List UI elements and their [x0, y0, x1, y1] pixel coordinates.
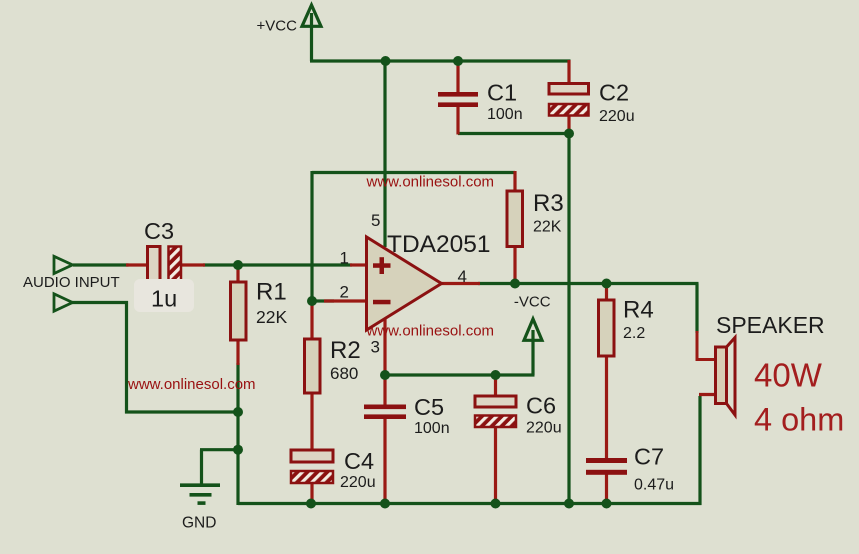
wire pin2 stub — [324, 299, 366, 302]
capacitor C2 bottom element — [549, 104, 589, 116]
power flag +VCC — [302, 5, 321, 61]
junction node A input — [233, 260, 243, 270]
wire R3 top pin — [513, 171, 516, 192]
wire bottom ground rail — [238, 502, 702, 505]
wire C6 top pin — [494, 374, 497, 397]
svg-text:22K: 22K — [533, 218, 562, 235]
svg-text:2.2: 2.2 — [623, 325, 645, 342]
svg-text:22K: 22K — [256, 307, 287, 327]
wire -VCC flag drop — [531, 330, 534, 375]
junction rail C4 — [306, 499, 316, 509]
wire R1 leg down — [236, 363, 239, 505]
wire C6 bottom pin — [494, 426, 497, 503]
capacitor C7 bottom plate — [586, 470, 627, 475]
svg-text:5: 5 — [371, 211, 380, 230]
wire R4 top pin — [605, 282, 608, 301]
resistor R4 — [599, 300, 615, 356]
wire speaker bottom pin — [699, 393, 717, 396]
op-amp U1 minus input marker — [373, 300, 391, 305]
svg-text:AUDIO INPUT: AUDIO INPUT — [23, 274, 120, 291]
capacitor C1 bottom plate — [438, 102, 478, 107]
svg-text:C3: C3 — [144, 218, 174, 244]
junction pin2 feedback — [307, 296, 317, 306]
svg-text:TDA2051: TDA2051 — [387, 231, 491, 258]
junction C2 bottom — [564, 129, 574, 139]
wire R1 bottom pin — [236, 339, 239, 365]
svg-text:C4: C4 — [344, 448, 374, 474]
wire pin3 stub — [383, 317, 386, 376]
capacitor C3 value 1u — [134, 279, 194, 312]
wire C3 left pin — [126, 263, 149, 266]
wire top +VCC rail — [310, 59, 571, 62]
svg-text:R3: R3 — [533, 190, 564, 217]
capacitor C5 top plate — [364, 405, 406, 410]
speaker LS1 driver — [716, 347, 727, 404]
wire R4 to C7 — [605, 355, 608, 459]
resistor R2 — [305, 339, 321, 393]
svg-text:3: 3 — [371, 337, 380, 356]
wire speaker bottom return — [698, 396, 701, 505]
wire pin3 to -VCC flag — [385, 373, 535, 376]
junction gnd branch — [233, 445, 243, 455]
svg-text:4 ohm: 4 ohm — [754, 402, 844, 438]
capacitor C4 top element — [291, 450, 333, 462]
wire speaker top pin — [697, 331, 717, 360]
svg-text:C2: C2 — [599, 79, 629, 105]
junction rail C7 — [602, 499, 612, 509]
junction output R4 — [602, 279, 612, 289]
wire R2 to C4 — [310, 392, 313, 451]
svg-text:www.onlinesol.com: www.onlinesol.com — [366, 174, 495, 191]
svg-text:220u: 220u — [340, 474, 376, 491]
svg-text:1: 1 — [340, 248, 349, 267]
svg-text:2: 2 — [340, 283, 349, 302]
svg-text:R1: R1 — [256, 279, 287, 306]
junction R1 leg input2 — [233, 407, 243, 417]
svg-text:GND: GND — [182, 514, 216, 531]
resistor R1 — [231, 282, 247, 340]
svg-text:40W: 40W — [754, 357, 823, 394]
power flag -VCC — [524, 319, 542, 340]
svg-text:SPEAKER: SPEAKER — [716, 312, 825, 338]
wire C3 right pin — [180, 263, 205, 266]
wire input2 horizontal — [72, 301, 128, 304]
wire input2 to R1 leg — [125, 410, 240, 413]
junction rail x569 — [564, 499, 574, 509]
junction top rail pin5 — [381, 56, 391, 66]
wire C5 top pin — [383, 374, 386, 405]
svg-text:R2: R2 — [330, 337, 361, 364]
wire output to speaker drop — [695, 284, 698, 334]
wire C1-C2 bottom link — [458, 132, 571, 135]
wire C5 bottom pin — [383, 418, 386, 503]
wire R3 bottom pin — [513, 246, 516, 285]
capacitor C3 left element — [148, 247, 161, 284]
connector input pin top — [54, 256, 73, 273]
capacitor C6 bottom element — [475, 416, 516, 428]
svg-text:4: 4 — [458, 267, 467, 286]
op-amp U1 TDA2051 body — [367, 237, 442, 330]
svg-text:680: 680 — [330, 364, 358, 383]
svg-text:www.onlinesol.com: www.onlinesol.com — [366, 323, 495, 340]
wire pin4 stub — [440, 282, 480, 285]
capacitor C7 top plate — [586, 458, 627, 463]
wire C1 bottom pin — [456, 106, 459, 135]
junction top rail C1 — [453, 56, 463, 66]
junction pin3 C5 — [380, 370, 390, 380]
wire C2 top pin — [567, 60, 570, 85]
junction output R3 — [510, 279, 520, 289]
wire gnd branch horizontal — [200, 448, 238, 451]
svg-text:C6: C6 — [526, 393, 556, 419]
svg-text:100n: 100n — [487, 106, 523, 123]
wire gnd branch vertical — [200, 450, 203, 485]
wire C4 bottom pin — [310, 482, 313, 503]
wire output — [478, 282, 699, 285]
svg-text:220u: 220u — [599, 108, 635, 125]
wire R2 top pin — [310, 300, 313, 341]
svg-text:1u: 1u — [151, 286, 177, 312]
wire input1 to C3 — [73, 263, 129, 266]
wire feedback top — [312, 171, 515, 174]
svg-text:R4: R4 — [623, 297, 654, 324]
wire feedback left vertical — [310, 171, 313, 301]
wire C2 bottom pin — [567, 115, 570, 135]
svg-text:+VCC: +VCC — [257, 18, 298, 35]
svg-text:0.47u: 0.47u — [634, 477, 674, 494]
svg-text:220u: 220u — [526, 420, 562, 437]
capacitor C3 right element — [169, 247, 182, 284]
junction rail C5 — [380, 499, 390, 509]
junction C6 top — [491, 370, 501, 380]
wire pin2 from junction — [312, 299, 334, 302]
speaker LS1 horn — [727, 338, 736, 416]
svg-text:www.onlinesol.com: www.onlinesol.com — [127, 376, 256, 393]
wire R1 top pin — [236, 264, 239, 284]
svg-text:-VCC: -VCC — [514, 293, 551, 310]
op-amp U1 plus input marker — [373, 257, 391, 274]
wire pin1 stub — [350, 263, 366, 266]
svg-text:100n: 100n — [414, 420, 450, 437]
connector input pin bottom — [54, 294, 73, 311]
capacitor C2 top element — [549, 84, 589, 95]
svg-text:C1: C1 — [487, 79, 517, 105]
wire C7 bottom pin — [605, 474, 608, 503]
capacitor C6 top element — [475, 396, 516, 407]
ground symbol — [180, 485, 220, 503]
wire node A to pin1 — [238, 263, 352, 266]
wire C3 to node A — [203, 263, 240, 266]
wire decoupling ground drop x569 — [567, 134, 570, 504]
svg-text:C7: C7 — [634, 444, 664, 470]
resistor R3 — [507, 191, 523, 247]
svg-text:C5: C5 — [414, 394, 444, 420]
wire input2 vertical — [125, 301, 128, 414]
capacitor C1 top plate — [438, 92, 478, 97]
capacitor C4 bottom element — [291, 471, 333, 483]
junction rail C6 — [491, 499, 501, 509]
wire pin5 vertical — [383, 61, 386, 247]
wire C1 top pin — [456, 60, 459, 93]
capacitor C5 bottom plate — [364, 414, 406, 419]
